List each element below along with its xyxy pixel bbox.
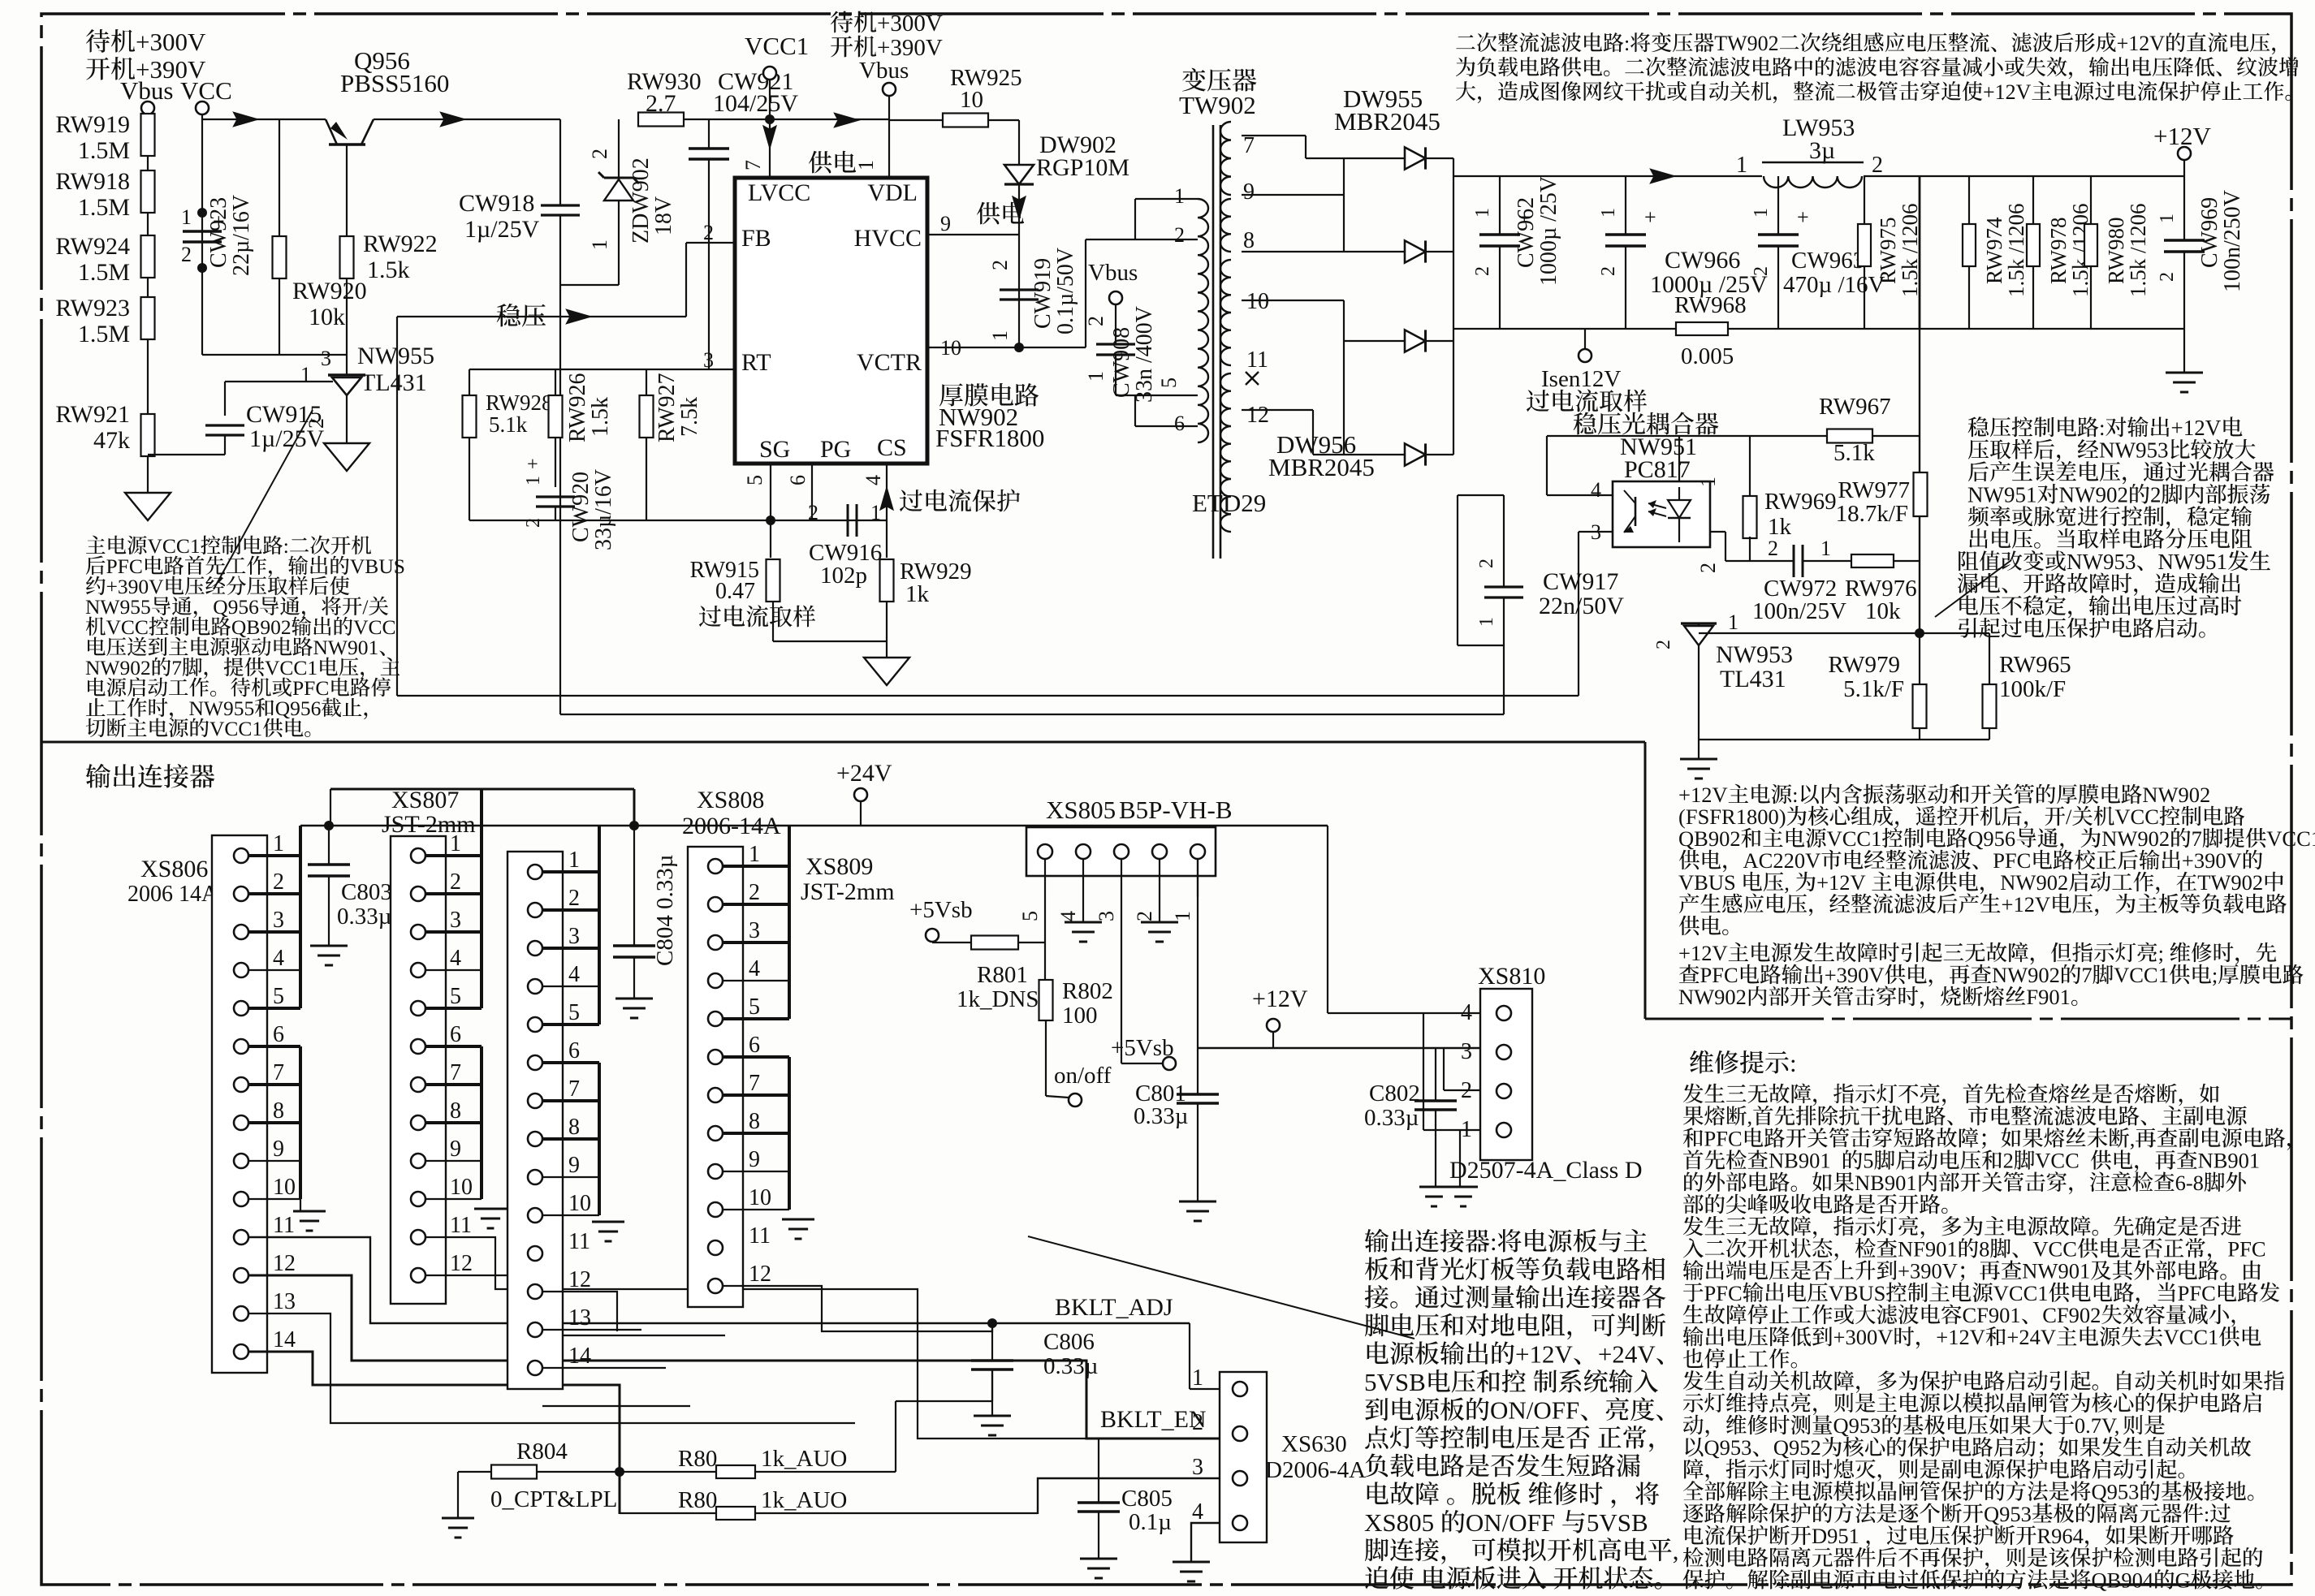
- wire lower taps: [1134, 395, 1136, 426]
- svg-text:8: 8: [273, 1098, 284, 1124]
- wire tap9: [1242, 194, 1344, 196]
- svg-text:,: ,: [1747, 1104, 1753, 1128]
- svg-text:+12V: +12V: [2171, 416, 2222, 440]
- wire bottom common: [469, 520, 887, 521]
- diode DW902 RGP10M: [1004, 165, 1034, 184]
- svg-text:1: 1: [749, 842, 760, 867]
- svg-text:JST-2mm: JST-2mm: [382, 811, 476, 838]
- secondary coil C: [1220, 260, 1231, 365]
- svg-text:11: 11: [568, 1229, 590, 1254]
- shunt NW953 TL431: [1698, 623, 1700, 633]
- svg-text:6: 6: [786, 475, 810, 485]
- svg-text:NW951: NW951: [2158, 550, 2227, 574]
- svg-text:Q953: Q953: [1704, 1435, 1752, 1460]
- leader 输出连接器 line: [1028, 1236, 1414, 1339]
- wire Q956 emitter to right: [374, 119, 560, 120]
- svg-text:1: 1: [1728, 610, 1738, 634]
- svg-text:NW902: NW902: [85, 656, 151, 679]
- svg-text:CW920: CW920: [568, 472, 594, 542]
- svg-text:/: /: [2066, 804, 2072, 829]
- svg-text:C806: C806: [1043, 1329, 1095, 1355]
- wire pin3 row: [1038, 1478, 1220, 1514]
- svg-text:CW966: CW966: [1665, 247, 1740, 274]
- svg-text:1.5k /1206: 1.5k /1206: [2126, 203, 2150, 297]
- svg-text:1µ/25V: 1µ/25V: [249, 425, 325, 452]
- svg-text:100k/F: 100k/F: [1999, 676, 2066, 702]
- svg-text:100n/250V: 100n/250V: [2220, 190, 2245, 292]
- wire tap7: [1242, 135, 1306, 136]
- svg-text:1: 1: [450, 831, 461, 856]
- svg-text:Q956: Q956: [1967, 826, 2015, 851]
- XS807 bus 6-10: [480, 1046, 483, 1199]
- wire VCTR staircase: [1085, 239, 1086, 347]
- svg-text:8: 8: [450, 1098, 461, 1124]
- svg-text:10: 10: [568, 1191, 591, 1216]
- svg-text::: :: [283, 534, 289, 558]
- svg-text:1.5k /1206: 1.5k /1206: [1898, 203, 1922, 297]
- svg-text:+300V: +300V: [1833, 1325, 1894, 1349]
- svg-text:2: 2: [988, 260, 1012, 270]
- svg-text:RW919: RW919: [55, 111, 130, 138]
- svg-text:22µ/16V: 22µ/16V: [229, 195, 254, 276]
- svg-text:1: 1: [2157, 214, 2178, 223]
- svg-text:NW951: NW951: [1967, 483, 2036, 507]
- svg-text:LVCC: LVCC: [748, 179, 810, 206]
- svg-text:0.47: 0.47: [715, 579, 755, 604]
- XS809 bus 6-10: [788, 1057, 791, 1210]
- svg-text:Vbus: Vbus: [1088, 260, 1138, 286]
- XS807 pin wires: [425, 854, 482, 857]
- wire pin3 to +5Vsb: [1121, 897, 1122, 1063]
- svg-text:RW977: RW977: [1838, 477, 1910, 503]
- svg-text:CW918: CW918: [459, 190, 534, 217]
- svg-text:XS809: XS809: [805, 853, 873, 880]
- svg-text:CF902: CF902: [2042, 1303, 2101, 1327]
- wire tap10: [1242, 300, 1344, 301]
- svg-text:7: 7: [171, 656, 182, 679]
- svg-text::: :: [2204, 1502, 2209, 1526]
- wire RW925 to diode: [988, 119, 1019, 121]
- svg-text:8: 8: [749, 1109, 760, 1134]
- svg-text:RW927: RW927: [654, 373, 680, 442]
- node VCC1: [765, 114, 775, 124]
- wire xs810 net a: [1327, 826, 1328, 1013]
- svg-text:NW953: NW953: [2067, 550, 2136, 574]
- svg-text:4: 4: [273, 946, 284, 971]
- svg-text:VBUS: VBUS: [1829, 1281, 1886, 1305]
- svg-text:1: 1: [1736, 153, 1747, 178]
- svg-text:1: 1: [870, 501, 881, 524]
- resistor RW927 7.5k: [646, 369, 647, 395]
- svg-text:5: 5: [1018, 911, 1042, 921]
- svg-text:0.7V,: 0.7V,: [2075, 1413, 2119, 1438]
- svg-text:VCC1: VCC1: [2114, 963, 2169, 987]
- wire VCC down: [201, 114, 203, 355]
- junction C804: [629, 821, 639, 830]
- svg-text:33µ/16V: 33µ/16V: [591, 469, 616, 550]
- svg-text:ON/OFF: ON/OFF: [1466, 1508, 1555, 1537]
- svg-text:JST-2mm: JST-2mm: [801, 878, 895, 905]
- diode DW955a row: [1344, 157, 1405, 159]
- svg-text:F901: F901: [2026, 985, 2071, 1009]
- svg-text:VDL: VDL: [867, 179, 918, 206]
- svg-text:RW975: RW975: [1876, 217, 1900, 284]
- diode DW956a row: [1344, 340, 1405, 342]
- junction top left: [324, 821, 334, 830]
- svg-text:7: 7: [568, 1076, 580, 1102]
- svg-text:3: 3: [1095, 911, 1118, 921]
- svg-text:VCTR: VCTR: [857, 349, 922, 376]
- svg-text:1: 1: [1192, 1365, 1203, 1391]
- svg-text:9: 9: [749, 1147, 760, 1172]
- resistor RW967 5.1k: [1827, 429, 1872, 443]
- XS808 pin14 wire: [542, 1405, 690, 1407]
- svg-text:NW902: NW902: [2000, 870, 2068, 895]
- XS806 gnd drop: [300, 1199, 301, 1211]
- wire main VCC rail: [202, 119, 326, 120]
- svg-text:12: 12: [1246, 403, 1269, 428]
- svg-text:RW922: RW922: [363, 231, 438, 257]
- svg-text:RW923: RW923: [55, 295, 130, 321]
- XS806 pin14 wire: [248, 1352, 620, 1514]
- svg-text:B5P-VH-B: B5P-VH-B: [1119, 796, 1233, 824]
- svg-text:R964: R964: [2037, 1524, 2084, 1548]
- svg-text:XS630: XS630: [1281, 1431, 1347, 1457]
- connector XS630: [1220, 1372, 1267, 1542]
- wire xs810 net b: [1479, 1047, 1481, 1049]
- svg-text:NB901: NB901: [2198, 1149, 2261, 1173]
- svg-text:NW955: NW955: [357, 343, 434, 369]
- svg-text:6: 6: [273, 1022, 284, 1047]
- label 稳压光耦合器: [1574, 412, 1596, 435]
- svg-text:+12V: +12V: [1983, 80, 2032, 104]
- svg-text:7: 7: [2081, 963, 2092, 987]
- svg-text:VCC: VCC: [2032, 1236, 2077, 1261]
- capacitor CW918: [559, 119, 561, 205]
- capacitor C802: [1435, 1048, 1436, 1101]
- svg-text:+24V: +24V: [1598, 1339, 1656, 1368]
- svg-text:Q952: Q952: [1773, 1435, 1821, 1460]
- svg-text:1: 1: [1476, 617, 1497, 627]
- svg-text:12: 12: [568, 1267, 591, 1292]
- svg-text:NW902: NW902: [1678, 985, 1747, 1009]
- svg-text:1: 1: [1751, 208, 1772, 218]
- svg-text:NB901: NB901: [1855, 1171, 1917, 1195]
- svg-text:5.1k: 5.1k: [489, 412, 528, 437]
- svg-text:1: 1: [1820, 537, 1831, 560]
- svg-text:2: 2: [1653, 640, 1674, 649]
- svg-text:XS807: XS807: [391, 787, 459, 813]
- svg-text:,: ,: [1784, 870, 1790, 895]
- svg-text:XS806: XS806: [140, 856, 208, 882]
- XS805 pin stems: [1044, 859, 1046, 897]
- label 供电 top: [809, 151, 832, 174]
- svg-text:VCC1: VCC1: [2266, 826, 2315, 851]
- label 输出连接器: [86, 764, 110, 788]
- svg-text:CF901: CF901: [1963, 1303, 2021, 1327]
- svg-text:RW967: RW967: [1819, 394, 1891, 420]
- capacitor CW919: [1000, 288, 1039, 291]
- svg-text:+12V: +12V: [1936, 1325, 1985, 1349]
- capacitor C806: [991, 1323, 993, 1361]
- svg-text:R804: R804: [516, 1439, 568, 1464]
- svg-text:7: 7: [1243, 133, 1255, 158]
- svg-text:2: 2: [2003, 1149, 2014, 1173]
- wire +12V bus: [1198, 1047, 1480, 1050]
- svg-text:CW969: CW969: [2197, 197, 2222, 268]
- svg-text:1: 1: [1461, 1117, 1472, 1142]
- resistor RW965: [1989, 633, 1990, 685]
- junction SG: [766, 515, 775, 525]
- XS806 bus 6-10: [299, 1046, 302, 1199]
- svg-text:CW917: CW917: [1543, 568, 1618, 595]
- svg-text:6: 6: [1174, 412, 1185, 435]
- svg-text:1: 1: [568, 848, 580, 873]
- secondary coil D: [1220, 373, 1231, 532]
- XS806 pin wires: [248, 854, 300, 857]
- svg-text:2006 14A: 2006 14A: [127, 882, 218, 907]
- svg-text:7: 7: [749, 1071, 760, 1096]
- ground xs630 pin4: [1173, 1561, 1210, 1564]
- svg-text:1: 1: [854, 160, 878, 170]
- junction CW919 bottom: [1014, 343, 1024, 352]
- svg-text:D2507-4A_Class D: D2507-4A_Class D: [1449, 1157, 1643, 1184]
- XS806 pin12 wire: [248, 1275, 1220, 1439]
- svg-text:R801: R801: [977, 962, 1028, 988]
- svg-text:2: 2: [2157, 272, 2178, 282]
- svg-text:FSFR1800: FSFR1800: [935, 424, 1044, 452]
- svg-text:TW902: TW902: [1179, 91, 1256, 119]
- XS807 pin12 wire: [425, 1275, 725, 1335]
- capacitor CW962: [1499, 176, 1501, 235]
- svg-text:D951: D951: [1812, 1524, 1859, 1548]
- svg-text:9: 9: [940, 212, 951, 235]
- svg-text:CW962: CW962: [1514, 197, 1539, 268]
- svg-text:+5Vsb: +5Vsb: [1111, 1035, 1174, 1061]
- capacitor CW923: [183, 230, 222, 232]
- leader line to text: [214, 410, 313, 589]
- capacitor C804: [633, 826, 635, 946]
- svg-text:11: 11: [1246, 347, 1268, 373]
- svg-text:RW980: RW980: [2104, 217, 2128, 284]
- resistor RW978: [2032, 176, 2034, 224]
- wire sample vertical: [1919, 176, 1921, 329]
- wire pin4 gnd: [1082, 897, 1084, 922]
- svg-text:11: 11: [450, 1213, 472, 1238]
- text 稳压控制电路 paragraph: [1968, 416, 1989, 437]
- ground output: [2166, 372, 2203, 374]
- svg-text:10: 10: [960, 87, 983, 113]
- svg-text:+5Vsb: +5Vsb: [909, 897, 973, 923]
- wire lower rect verticals: [1343, 300, 1345, 455]
- svg-text:9: 9: [568, 1153, 580, 1178]
- label 供电 2: [977, 202, 1000, 225]
- svg-text:C802: C802: [1369, 1081, 1420, 1106]
- svg-text:5: 5: [568, 1000, 580, 1025]
- svg-text:8: 8: [568, 1115, 580, 1140]
- diode DW955b row: [1344, 251, 1405, 252]
- wire top bus A: [330, 788, 634, 791]
- svg-text:6: 6: [749, 1033, 760, 1058]
- wire CW921 bottom to RT: [708, 243, 710, 369]
- svg-text:2.7: 2.7: [646, 90, 676, 117]
- resistor R801 1k_DNS: [971, 936, 1018, 950]
- svg-text:VCC1: VCC1: [1993, 1281, 2049, 1305]
- svg-text:1.5M: 1.5M: [78, 321, 130, 347]
- wire xs810 net d: [1423, 1013, 1424, 1130]
- svg-text:NW902: NW902: [2101, 826, 2170, 851]
- svg-text:1: 1: [1171, 911, 1194, 921]
- svg-text:5.1k/F: 5.1k/F: [1843, 676, 1904, 702]
- svg-text:2: 2: [588, 149, 611, 159]
- svg-text:SG: SG: [759, 436, 790, 463]
- ground XS806: [293, 1210, 326, 1213]
- svg-text:2: 2: [2150, 483, 2162, 507]
- ground R804: [442, 1517, 474, 1520]
- ground xs810: [1449, 1186, 1478, 1188]
- svg-text:4: 4: [862, 475, 885, 485]
- svg-text:0.33µ: 0.33µ: [652, 855, 678, 909]
- svg-text:NW902: NW902: [2059, 483, 2128, 507]
- svg-text:+12V: +12V: [1515, 1339, 1573, 1368]
- wire upper rect verticals: [1343, 158, 1345, 252]
- svg-text:100n/25V: 100n/25V: [1752, 598, 1846, 624]
- wire RW967 row: [1547, 435, 1920, 437]
- svg-text:1k_AUO: 1k_AUO: [761, 1446, 847, 1472]
- svg-text:2: 2: [1768, 537, 1778, 560]
- svg-text:2: 2: [1751, 266, 1772, 276]
- svg-text::: :: [1490, 1227, 1497, 1256]
- svg-text:9: 9: [273, 1137, 284, 1162]
- wire output bus: [1453, 175, 1762, 177]
- svg-text:2: 2: [1476, 559, 1497, 568]
- connector XS809 body: [688, 847, 743, 1307]
- svg-text:,: ,: [1673, 1537, 1679, 1565]
- svg-text:RGP10M: RGP10M: [1036, 154, 1129, 181]
- svg-text:3: 3: [749, 918, 760, 943]
- XS808 pin13 wire: [542, 1367, 666, 1369]
- svg-text:7: 7: [2192, 826, 2202, 851]
- wire aux taps: [1134, 199, 1136, 239]
- svg-text:Q953: Q953: [1984, 1502, 2032, 1526]
- terminal Vbus: [141, 101, 154, 114]
- svg-text:0.33µ: 0.33µ: [337, 904, 391, 930]
- svg-text:2: 2: [703, 221, 714, 244]
- svg-text:Vbus: Vbus: [120, 76, 173, 105]
- resistor R804: [491, 1465, 537, 1479]
- resistor RW922 1.5k: [340, 236, 354, 278]
- svg-text:+12V: +12V: [1816, 870, 1866, 895]
- resistor RW915 0.47: [767, 559, 780, 602]
- svg-text:10: 10: [1246, 289, 1269, 314]
- svg-text:6: 6: [568, 1038, 580, 1063]
- wire NW955 ref: [225, 381, 333, 382]
- svg-text:3: 3: [321, 347, 331, 370]
- svg-text:TW902: TW902: [2197, 870, 2263, 895]
- wire pin4 riser: [1546, 436, 1548, 495]
- IC part labels: [939, 383, 963, 406]
- svg-text:1k_DNS: 1k_DNS: [957, 986, 1039, 1012]
- optocoupler NW951 box: [1613, 481, 1710, 547]
- svg-text:0.33µ: 0.33µ: [1364, 1105, 1419, 1131]
- wire VCC1 to pin7: [769, 119, 771, 178]
- svg-text:RW924: RW924: [55, 233, 130, 260]
- svg-text:22n/50V: 22n/50V: [1539, 593, 1624, 619]
- svg-text:12: 12: [273, 1251, 296, 1276]
- XS809 pin12 wire: [723, 1286, 992, 1331]
- svg-text:PFC: PFC: [1993, 848, 2031, 873]
- svg-text:Q956: Q956: [275, 697, 322, 720]
- svg-text:Isen12V: Isen12V: [1541, 366, 1621, 392]
- wire ref bottom: [148, 454, 225, 455]
- svg-text:RW921: RW921: [55, 401, 130, 428]
- resistor RW979: [1919, 633, 1920, 685]
- connector XS806 body: [212, 835, 267, 1373]
- junction sample dot: [1915, 628, 1924, 638]
- svg-text:11: 11: [273, 1213, 295, 1238]
- svg-text:PC817: PC817: [1624, 456, 1691, 483]
- svg-text:2: 2: [1084, 316, 1108, 326]
- svg-text:BKLT_EN: BKLT_EN: [1100, 1406, 1207, 1433]
- resistor RW980: [2090, 176, 2092, 224]
- svg-text:VCC1: VCC1: [745, 32, 809, 60]
- svg-text:VCC: VCC: [2114, 804, 2159, 829]
- connector XS805 body: [1026, 827, 1216, 876]
- svg-text:RT: RT: [741, 349, 771, 376]
- svg-text:XS808: XS808: [697, 787, 764, 813]
- svg-text:1.5M: 1.5M: [78, 259, 130, 286]
- svg-text:10: 10: [273, 1175, 296, 1200]
- ground triangle CS: [864, 658, 909, 685]
- svg-text:1: 1: [1174, 184, 1185, 208]
- svg-text:470µ /16V: 470µ /16V: [1783, 272, 1885, 298]
- svg-text:+12V: +12V: [2117, 32, 2166, 55]
- wire RW930 to CW921: [684, 119, 770, 120]
- svg-text:13: 13: [273, 1289, 296, 1314]
- svg-text:XS805: XS805: [1364, 1508, 1434, 1537]
- wire bottom node: [202, 354, 347, 356]
- svg-text:C803: C803: [341, 879, 392, 905]
- svg-text:VCC: VCC: [2035, 1149, 2080, 1173]
- wire rail to ground: [2183, 329, 2185, 373]
- svg-text:on/off: on/off: [1054, 1063, 1112, 1089]
- terminal Isen12V: [1584, 329, 1586, 349]
- wire tap12: [1242, 409, 1313, 411]
- svg-text:102p: 102p: [820, 563, 867, 589]
- resistor RW974: [1968, 176, 1970, 224]
- svg-text:100: 100: [1062, 1003, 1098, 1029]
- wire bottom row W2: [1699, 739, 1989, 740]
- svg-text:+: +: [1644, 205, 1656, 229]
- junction BKLT_ADJ C806: [987, 1318, 997, 1328]
- svg-text:+12V: +12V: [1678, 783, 1728, 807]
- resistor RW975: [1864, 176, 1865, 224]
- svg-text:2: 2: [1872, 153, 1883, 178]
- svg-text:1: 1: [1696, 477, 1720, 487]
- wire 806pin14 drop: [619, 1385, 620, 1513]
- svg-text:14: 14: [568, 1344, 591, 1369]
- svg-text:QB904: QB904: [2092, 1568, 2154, 1592]
- svg-text:MBR2045: MBR2045: [1334, 107, 1440, 136]
- svg-text:QB902: QB902: [231, 615, 292, 639]
- secondary coil B: [1220, 199, 1231, 252]
- svg-text:8: 8: [1979, 1236, 1989, 1261]
- section divider line: [41, 741, 1645, 744]
- svg-text:11: 11: [749, 1223, 771, 1249]
- svg-text:2: 2: [1192, 1410, 1203, 1435]
- svg-text:2: 2: [1133, 911, 1156, 921]
- svg-text::: :: [1790, 1049, 1797, 1077]
